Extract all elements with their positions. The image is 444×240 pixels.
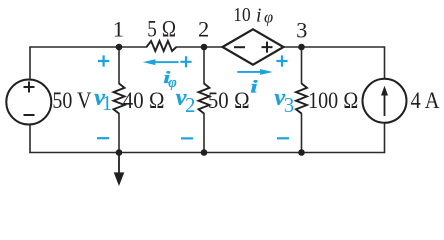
resistor R 100ohm zigzag bbox=[296, 84, 307, 114]
wire bottom bbox=[30, 152, 385, 154]
node 3 junction dot top bbox=[298, 44, 305, 51]
current arrow i (points right) bbox=[237, 69, 272, 75]
wire node3 to 100ohm bbox=[301, 47, 303, 84]
svg-text:2: 2 bbox=[185, 93, 196, 117]
minus sign v3 bbox=[277, 137, 289, 139]
svg-text:5 Ω: 5 Ω bbox=[147, 16, 176, 42]
diamond plus sign bbox=[262, 42, 273, 53]
wire top: between 5ohm resistor and node 2 / diamond bbox=[176, 46, 222, 48]
junction dot bottom under node 2 bbox=[201, 149, 208, 156]
wire 100ohm to bottom bbox=[301, 114, 303, 153]
svg-text:φ: φ bbox=[168, 75, 176, 91]
resistor R 40ohm zigzag bbox=[114, 84, 125, 114]
minus sign v1 bbox=[97, 137, 109, 139]
junction dot bottom under node 3 bbox=[298, 149, 305, 156]
svg-text:2: 2 bbox=[198, 17, 209, 42]
resistor R 5ohm zigzag bbox=[147, 41, 177, 51]
plus sign v3 bbox=[276, 55, 287, 66]
wire top right: diamond to node 3 to right corner bbox=[284, 46, 385, 48]
current arrow i_phi (points left) bbox=[143, 59, 179, 65]
svg-text:50 Ω: 50 Ω bbox=[208, 88, 250, 114]
wire node1 to 40ohm bbox=[118, 47, 120, 84]
current source 4A circle bbox=[363, 79, 407, 123]
minus sign v2 bbox=[181, 137, 193, 139]
current source arrow stem bbox=[384, 95, 386, 117]
svg-text:i: i bbox=[256, 5, 261, 26]
svg-text:1: 1 bbox=[113, 17, 124, 42]
wire top left: vs to node 1 and resistor bbox=[30, 46, 147, 48]
voltage source plus sign bbox=[24, 82, 35, 93]
voltage source minus sign bbox=[24, 114, 35, 116]
diamond minus sign bbox=[234, 46, 245, 48]
junction dot bottom under node 1 bbox=[116, 149, 123, 156]
svg-text:100 Ω: 100 Ω bbox=[308, 88, 359, 114]
wire right vertical below current source bbox=[384, 123, 386, 152]
plus sign v1 bbox=[98, 55, 109, 66]
svg-text:1: 1 bbox=[102, 91, 113, 115]
resistor R 50ohm zigzag bbox=[199, 84, 210, 114]
wire left vertical below source bbox=[29, 124, 31, 152]
svg-text:3: 3 bbox=[296, 18, 307, 43]
plus sign v2 bbox=[180, 56, 191, 67]
node 1 junction dot top bbox=[116, 44, 123, 51]
dependent source U1 diamond bbox=[223, 29, 284, 64]
ground symbol arrow bbox=[118, 153, 120, 174]
svg-text:50 V: 50 V bbox=[52, 88, 91, 114]
svg-text:3: 3 bbox=[284, 93, 295, 117]
wire left vertical above source bbox=[29, 47, 31, 80]
svg-text:φ: φ bbox=[264, 8, 273, 27]
svg-text:i: i bbox=[250, 76, 258, 96]
node 2 junction dot top bbox=[201, 44, 208, 51]
voltage source 50V circle bbox=[6, 80, 51, 125]
wire node2 to 50ohm bbox=[203, 47, 205, 84]
svg-text:4 A: 4 A bbox=[411, 88, 440, 114]
wire 40ohm to bottom bbox=[118, 114, 120, 153]
current source arrow head bbox=[381, 86, 388, 96]
wire 50ohm to bottom bbox=[203, 114, 205, 153]
wire right vertical above current source bbox=[384, 47, 386, 79]
svg-text:40 Ω: 40 Ω bbox=[123, 88, 165, 114]
svg-text:10: 10 bbox=[233, 5, 250, 26]
